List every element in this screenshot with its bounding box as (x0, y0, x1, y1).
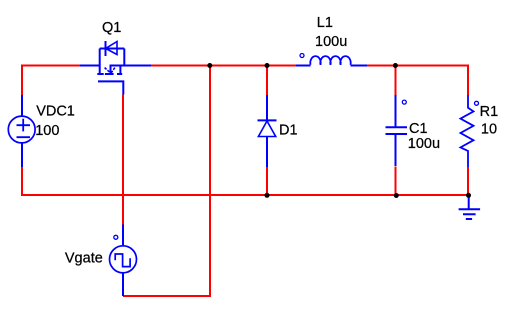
svg-text:10: 10 (481, 122, 497, 138)
svg-text:100u: 100u (408, 136, 440, 152)
svg-text:100: 100 (35, 123, 59, 139)
svg-text:Vgate: Vgate (65, 250, 103, 266)
svg-text:L1: L1 (317, 15, 333, 31)
svg-text:R1: R1 (480, 104, 499, 120)
svg-text:VDC1: VDC1 (36, 104, 75, 120)
svg-text:Q1: Q1 (102, 20, 121, 36)
svg-text:100u: 100u (315, 34, 347, 50)
svg-text:D1: D1 (279, 122, 298, 138)
svg-text:C1: C1 (409, 121, 428, 137)
